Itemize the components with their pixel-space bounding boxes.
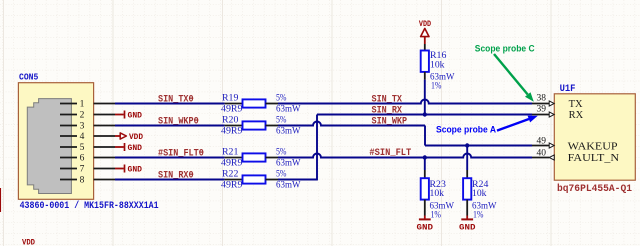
svg-text:63mW: 63mW bbox=[276, 158, 301, 168]
svg-text:R22: R22 bbox=[222, 170, 239, 180]
svg-text:RX: RX bbox=[569, 110, 584, 121]
svg-text:1%: 1% bbox=[431, 210, 442, 220]
svg-text:WAKEUP: WAKEUP bbox=[568, 141, 618, 152]
svg-text:39: 39 bbox=[537, 104, 547, 114]
svg-text:49R9: 49R9 bbox=[221, 158, 243, 168]
svg-text:GND: GND bbox=[128, 143, 143, 153]
svg-text:6: 6 bbox=[80, 154, 85, 164]
svg-text:63mW: 63mW bbox=[276, 104, 301, 114]
svg-text:63mW: 63mW bbox=[276, 126, 301, 136]
svg-text:5%: 5% bbox=[276, 116, 287, 126]
svg-text:10k: 10k bbox=[430, 189, 445, 199]
svg-text:7: 7 bbox=[80, 165, 85, 175]
svg-text:49R9: 49R9 bbox=[221, 104, 243, 114]
svg-text:FAULT_N: FAULT_N bbox=[568, 153, 620, 164]
svg-text:GND: GND bbox=[128, 165, 143, 175]
svg-text:SIN_TX0: SIN_TX0 bbox=[158, 95, 194, 106]
svg-text:Scope probe A: Scope probe A bbox=[436, 124, 496, 135]
svg-text:3: 3 bbox=[80, 122, 85, 132]
svg-text:38: 38 bbox=[537, 93, 547, 103]
svg-text:1: 1 bbox=[80, 100, 85, 110]
svg-text:R21: R21 bbox=[222, 148, 239, 158]
svg-text:1%: 1% bbox=[473, 210, 484, 220]
svg-text:49R9: 49R9 bbox=[221, 180, 243, 190]
svg-text:GND: GND bbox=[128, 111, 143, 121]
svg-text:SIN_WKP: SIN_WKP bbox=[372, 116, 408, 127]
svg-text:bq76PL455A-Q1: bq76PL455A-Q1 bbox=[557, 183, 632, 195]
svg-text:5%: 5% bbox=[276, 170, 287, 180]
svg-text:VDD: VDD bbox=[22, 238, 35, 246]
svg-text:VDD: VDD bbox=[129, 132, 143, 142]
svg-text:GND: GND bbox=[417, 222, 434, 232]
svg-text:Scope probe C: Scope probe C bbox=[475, 44, 535, 55]
svg-text:5: 5 bbox=[80, 143, 85, 153]
svg-text:GND: GND bbox=[459, 222, 476, 232]
svg-text:43860-0001 / MK15FR-88XXX1A1: 43860-0001 / MK15FR-88XXX1A1 bbox=[20, 200, 159, 212]
svg-text:4: 4 bbox=[80, 132, 85, 142]
svg-text:#SIN_FLT0: #SIN_FLT0 bbox=[158, 148, 204, 159]
svg-text:49: 49 bbox=[537, 136, 547, 146]
svg-text:SIN_WKP0: SIN_WKP0 bbox=[158, 116, 199, 127]
svg-text:SIN_RX: SIN_RX bbox=[372, 105, 403, 116]
svg-text:VDD: VDD bbox=[419, 19, 431, 29]
svg-text:1%: 1% bbox=[431, 82, 442, 92]
svg-text:TX: TX bbox=[569, 99, 583, 110]
svg-text:SIN_TX: SIN_TX bbox=[372, 94, 403, 105]
svg-text:#SIN_FLT: #SIN_FLT bbox=[369, 148, 411, 159]
svg-text:5%: 5% bbox=[276, 94, 287, 104]
svg-text:63mW: 63mW bbox=[276, 180, 301, 190]
svg-text:40: 40 bbox=[537, 148, 547, 158]
svg-text:U1F: U1F bbox=[560, 84, 576, 95]
svg-text:8: 8 bbox=[80, 176, 85, 186]
svg-text:R20: R20 bbox=[222, 116, 239, 126]
svg-text:10k: 10k bbox=[472, 189, 487, 199]
svg-text:R19: R19 bbox=[222, 94, 239, 104]
svg-text:49R9: 49R9 bbox=[221, 126, 243, 136]
svg-text:CON5: CON5 bbox=[19, 72, 38, 82]
svg-text:SIN_RX0: SIN_RX0 bbox=[158, 170, 194, 181]
svg-text:10k: 10k bbox=[430, 60, 445, 70]
svg-text:5%: 5% bbox=[276, 148, 287, 158]
svg-text:2: 2 bbox=[80, 111, 85, 121]
